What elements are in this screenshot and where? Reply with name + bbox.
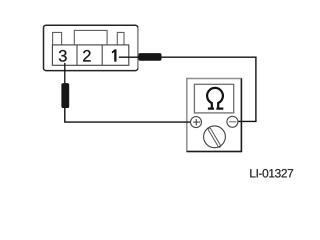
connector keying tab right (117, 32, 124, 45)
probe terminal at pin 3 (61, 83, 69, 108)
connector housing (44, 25, 138, 70)
wire pin1 probe to meter minus terminal (162, 57, 256, 121)
pin 2 label (83, 50, 91, 62)
minus terminal (227, 116, 238, 127)
selector knob (204, 126, 226, 148)
cavity divider 2|1 (101, 45, 103, 65)
pin 1 label (112, 49, 117, 61)
cavity divider 3|2 (76, 45, 78, 65)
probe terminal at pin 1 (138, 53, 161, 61)
connector housing right edge (lighter) (137, 28, 139, 69)
pin 3 lead (64, 63, 66, 84)
plus terminal (191, 117, 202, 128)
connector cavity row (52, 45, 128, 65)
wire pin3 probe to meter plus terminal (65, 108, 191, 123)
figure label LI-01327 (250, 169, 293, 178)
pin 3 label (59, 50, 67, 62)
multimeter body (187, 79, 242, 152)
connector keying tab left (53, 32, 62, 45)
pin 1 lead (119, 56, 139, 58)
connector keying tab center (74, 30, 107, 45)
ohm symbol (207, 88, 223, 109)
multimeter display (194, 84, 233, 113)
